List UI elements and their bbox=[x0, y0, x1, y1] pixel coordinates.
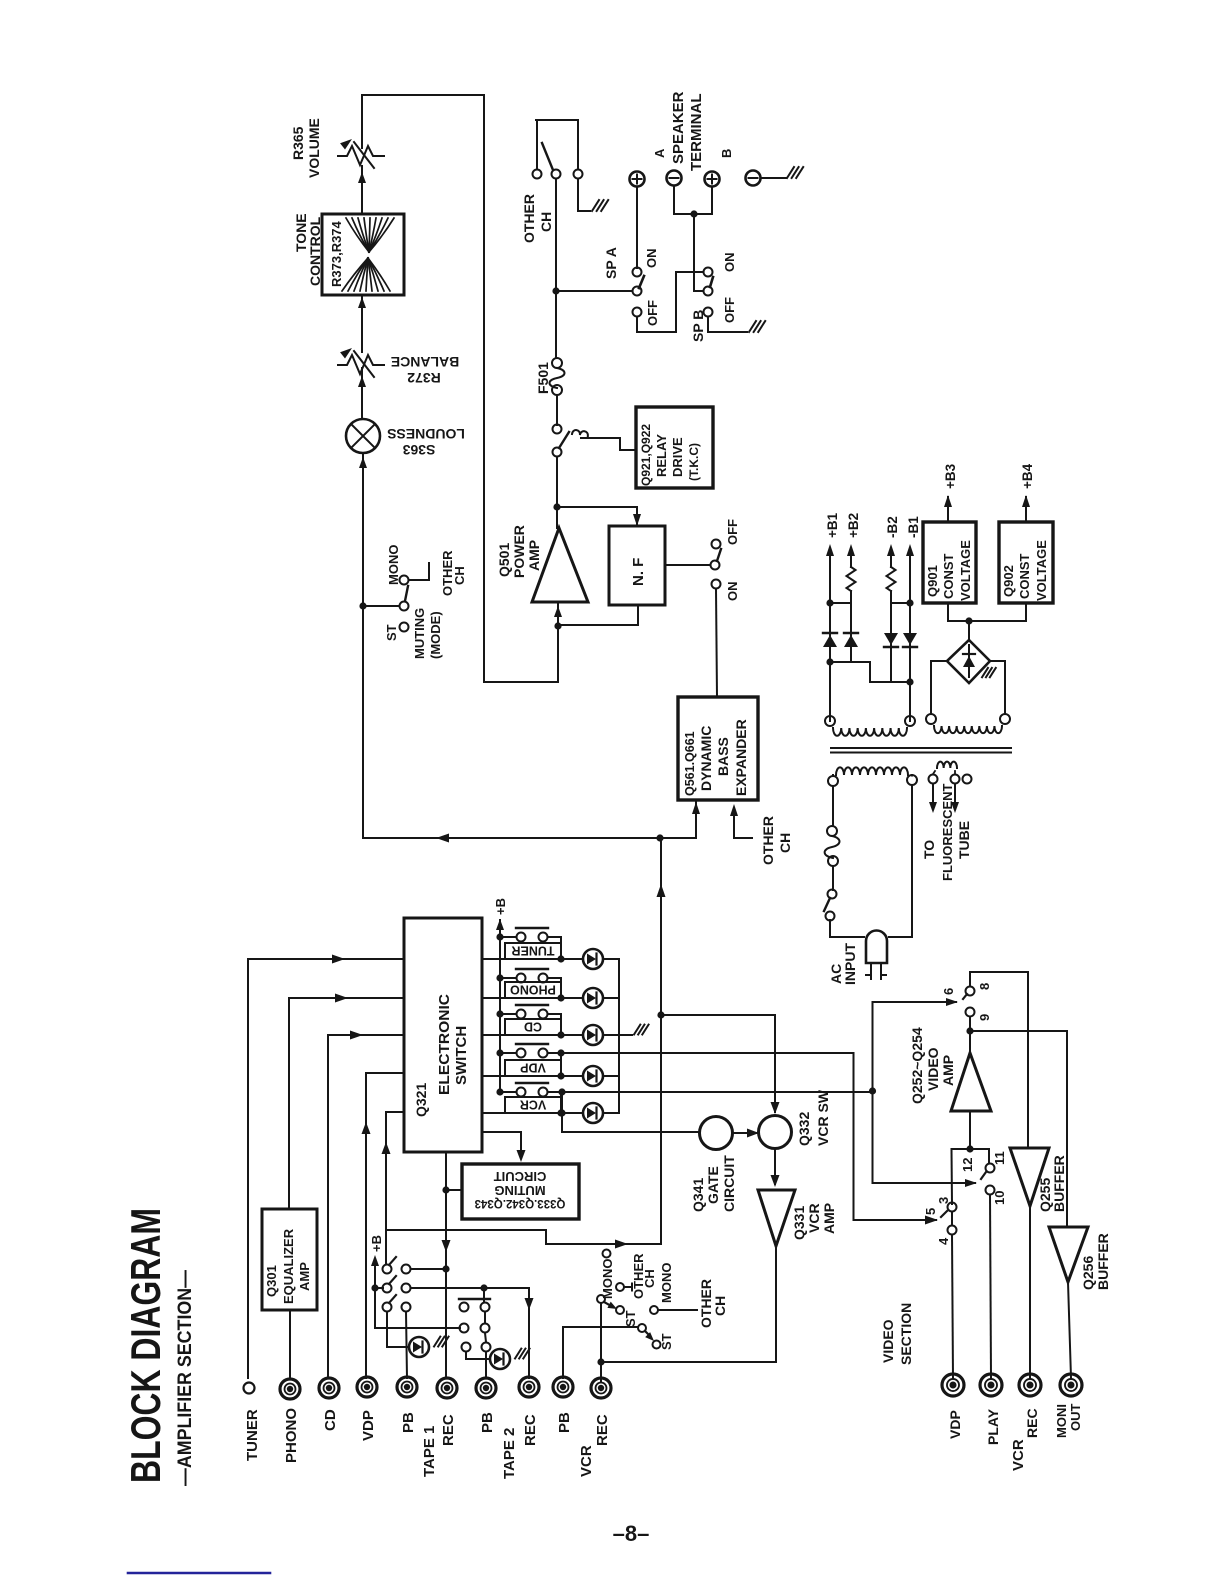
svg-text:MONO: MONO bbox=[659, 1263, 674, 1303]
svg-text:Q902: Q902 bbox=[1001, 565, 1016, 597]
svg-text:B: B bbox=[719, 149, 734, 158]
svg-text:LOUDNESS: LOUDNESS bbox=[387, 426, 465, 442]
svg-text:(MODE): (MODE) bbox=[428, 611, 443, 659]
svg-text:CONTROL: CONTROL bbox=[307, 216, 323, 286]
svg-text:Q901: Q901 bbox=[925, 565, 940, 597]
svg-text:4: 4 bbox=[936, 1237, 951, 1245]
svg-text:VOLTAGE: VOLTAGE bbox=[1034, 540, 1049, 601]
svg-text:SP B: SP B bbox=[690, 310, 706, 342]
svg-text:CH: CH bbox=[642, 1269, 657, 1288]
svg-text:TUNER: TUNER bbox=[511, 944, 554, 958]
svg-text:VDP: VDP bbox=[360, 1410, 377, 1441]
svg-text:VCR: VCR bbox=[520, 1098, 546, 1112]
svg-text:VCR SW: VCR SW bbox=[815, 1089, 831, 1146]
svg-text:TUNER: TUNER bbox=[244, 1409, 261, 1461]
svg-text:CH: CH bbox=[538, 212, 554, 232]
svg-text:SP A: SP A bbox=[603, 247, 619, 279]
svg-text:PLAY: PLAY bbox=[985, 1408, 1001, 1445]
svg-text:VDP: VDP bbox=[520, 1061, 546, 1075]
svg-text:Q331: Q331 bbox=[791, 1206, 807, 1240]
svg-text:VOLUME: VOLUME bbox=[306, 118, 322, 178]
svg-text:INPUT: INPUT bbox=[842, 943, 858, 985]
svg-text:ON: ON bbox=[725, 582, 740, 602]
svg-text:SPEAKER: SPEAKER bbox=[670, 91, 687, 164]
svg-text:CONST: CONST bbox=[941, 553, 956, 599]
svg-text:F501: F501 bbox=[535, 362, 551, 394]
svg-text:ELECTRONIC: ELECTRONIC bbox=[436, 994, 453, 1095]
svg-text:TAPE 2: TAPE 2 bbox=[501, 1428, 518, 1479]
svg-text:Q256: Q256 bbox=[1080, 1256, 1096, 1290]
svg-text:OTHER: OTHER bbox=[521, 194, 537, 243]
svg-text:PB: PB bbox=[479, 1412, 496, 1433]
svg-text:Q332: Q332 bbox=[796, 1112, 812, 1146]
svg-text:EXPANDER: EXPANDER bbox=[733, 719, 749, 796]
svg-text:BLOCK DIAGRAM: BLOCK DIAGRAM bbox=[122, 1208, 169, 1483]
svg-text:11: 11 bbox=[992, 1151, 1007, 1165]
svg-text:6: 6 bbox=[941, 988, 956, 995]
svg-text:VCR: VCR bbox=[1010, 1439, 1027, 1471]
svg-text:VDP: VDP bbox=[947, 1410, 963, 1439]
svg-text:CH: CH bbox=[712, 1296, 728, 1316]
svg-text:5: 5 bbox=[923, 1208, 938, 1215]
svg-text:OUT: OUT bbox=[1068, 1404, 1083, 1432]
svg-text:MUTING: MUTING bbox=[494, 1183, 545, 1198]
svg-text:BUFFER: BUFFER bbox=[1051, 1155, 1067, 1212]
svg-text:GATE: GATE bbox=[705, 1166, 721, 1204]
svg-text:-B2: -B2 bbox=[885, 516, 900, 538]
svg-text:(T.K.C): (T.K.C) bbox=[687, 443, 701, 481]
svg-text:REC: REC bbox=[594, 1414, 611, 1446]
svg-text:BUFFER: BUFFER bbox=[1095, 1233, 1111, 1290]
svg-text:VOLTAGE: VOLTAGE bbox=[958, 540, 973, 601]
svg-text:CH: CH bbox=[777, 833, 793, 853]
svg-text:R373,R374: R373,R374 bbox=[329, 220, 344, 287]
svg-text:OFF: OFF bbox=[722, 297, 737, 323]
svg-text:MONI: MONI bbox=[1054, 1404, 1069, 1438]
svg-text:REC: REC bbox=[1024, 1408, 1040, 1438]
svg-text:+B3: +B3 bbox=[943, 463, 958, 489]
svg-text:TUBE: TUBE bbox=[956, 821, 972, 859]
svg-text:CONST: CONST bbox=[1017, 553, 1032, 599]
svg-text:+B1: +B1 bbox=[825, 512, 840, 538]
svg-text:8: 8 bbox=[977, 983, 992, 990]
svg-text:12: 12 bbox=[960, 1158, 975, 1172]
svg-text:VCR: VCR bbox=[578, 1445, 595, 1477]
svg-text:–8–: –8– bbox=[613, 1521, 650, 1546]
svg-text:EQUALIZER: EQUALIZER bbox=[281, 1228, 296, 1304]
svg-text:PB: PB bbox=[400, 1412, 417, 1433]
svg-text:R365: R365 bbox=[290, 126, 306, 160]
svg-text:AMP: AMP bbox=[940, 1055, 956, 1086]
svg-text:9: 9 bbox=[977, 1014, 992, 1021]
svg-text:ON: ON bbox=[644, 249, 659, 269]
svg-text:BASS: BASS bbox=[715, 737, 731, 776]
svg-text:SWITCH: SWITCH bbox=[453, 1026, 470, 1085]
svg-text:Q921,Q922: Q921,Q922 bbox=[639, 424, 653, 486]
svg-text:—AMPLIFIER SECTION—: —AMPLIFIER SECTION— bbox=[175, 1270, 196, 1486]
svg-text:PB: PB bbox=[556, 1412, 573, 1433]
svg-text:BALANCE: BALANCE bbox=[391, 354, 459, 370]
svg-text:AMP: AMP bbox=[526, 540, 542, 571]
svg-text:CIRCUIT: CIRCUIT bbox=[721, 1155, 737, 1212]
svg-text:ON: ON bbox=[722, 253, 737, 273]
svg-text:Q252~Q254: Q252~Q254 bbox=[909, 1027, 925, 1104]
svg-text:N. F: N. F bbox=[630, 558, 647, 586]
svg-text:A: A bbox=[652, 148, 667, 158]
svg-text:PHONO: PHONO bbox=[510, 983, 556, 997]
svg-text:DYNAMIC: DYNAMIC bbox=[698, 726, 714, 791]
svg-text:R372: R372 bbox=[407, 370, 441, 386]
svg-text:TO: TO bbox=[921, 840, 937, 859]
svg-text:3: 3 bbox=[936, 1197, 951, 1204]
svg-text:+B4: +B4 bbox=[1020, 463, 1035, 489]
svg-text:RELAY: RELAY bbox=[654, 434, 669, 477]
svg-text:+B2: +B2 bbox=[846, 513, 861, 538]
svg-text:10: 10 bbox=[992, 1191, 1007, 1205]
svg-text:CD: CD bbox=[322, 1409, 339, 1431]
svg-text:OFF: OFF bbox=[645, 300, 660, 326]
svg-text:VCR: VCR bbox=[806, 1203, 822, 1233]
svg-text:VIDEO: VIDEO bbox=[925, 1047, 941, 1091]
svg-text:+B: +B bbox=[369, 1235, 384, 1252]
svg-text:DRIVE: DRIVE bbox=[670, 437, 685, 477]
svg-text:MONO: MONO bbox=[600, 1259, 615, 1299]
svg-text:ST: ST bbox=[384, 624, 399, 641]
svg-text:POWER: POWER bbox=[511, 525, 527, 578]
svg-text:TERMINAL: TERMINAL bbox=[688, 94, 705, 172]
svg-text:S363: S363 bbox=[402, 442, 435, 458]
svg-text:Q561.Q661: Q561.Q661 bbox=[683, 731, 697, 796]
svg-text:OFF: OFF bbox=[725, 519, 740, 545]
svg-text:+B: +B bbox=[493, 898, 508, 915]
svg-text:Q333.Q342.Q343: Q333.Q342.Q343 bbox=[475, 1197, 566, 1209]
svg-text:ST: ST bbox=[659, 1333, 674, 1350]
svg-text:CIRCUIT: CIRCUIT bbox=[494, 1169, 547, 1184]
svg-text:Q321: Q321 bbox=[413, 1083, 429, 1117]
svg-text:MONO: MONO bbox=[386, 545, 401, 585]
svg-text:TAPE 1: TAPE 1 bbox=[421, 1426, 438, 1477]
svg-text:OTHER: OTHER bbox=[760, 816, 776, 865]
svg-text:REC: REC bbox=[440, 1414, 457, 1446]
svg-text:AMP: AMP bbox=[821, 1203, 837, 1234]
svg-text:SECTION: SECTION bbox=[898, 1303, 914, 1365]
svg-text:Q341: Q341 bbox=[690, 1178, 706, 1212]
svg-text:Q501: Q501 bbox=[496, 543, 512, 577]
svg-text:CH: CH bbox=[452, 566, 467, 585]
svg-text:CD: CD bbox=[524, 1020, 542, 1034]
svg-text:Q301: Q301 bbox=[264, 1265, 279, 1297]
svg-text:FLUORESCENT: FLUORESCENT bbox=[940, 783, 955, 881]
svg-text:REC: REC bbox=[522, 1414, 539, 1446]
svg-text:ST: ST bbox=[623, 1310, 638, 1327]
svg-text:AMP: AMP bbox=[297, 1262, 312, 1291]
svg-text:MUTING: MUTING bbox=[412, 608, 427, 659]
svg-text:PHONO: PHONO bbox=[283, 1408, 300, 1463]
svg-text:-B1: -B1 bbox=[906, 516, 921, 538]
svg-text:VIDEO: VIDEO bbox=[880, 1319, 896, 1363]
